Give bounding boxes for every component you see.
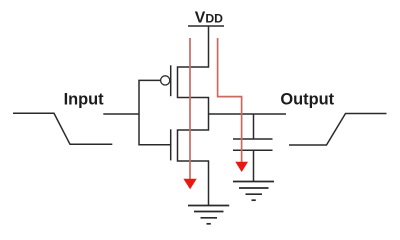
svg-text:VDD: VDD bbox=[195, 9, 223, 26]
svg-text:Input: Input bbox=[64, 91, 105, 109]
svg-text:Output: Output bbox=[280, 91, 334, 109]
